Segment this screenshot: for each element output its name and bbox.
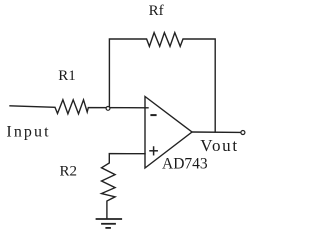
svg-text:AD743: AD743 (162, 155, 208, 172)
svg-text:R2: R2 (60, 164, 78, 180)
svg-text:Rf: Rf (149, 3, 164, 19)
svg-text:Input: Input (6, 124, 50, 141)
svg-text:R1: R1 (58, 68, 76, 84)
svg-text:Vout: Vout (200, 136, 239, 155)
